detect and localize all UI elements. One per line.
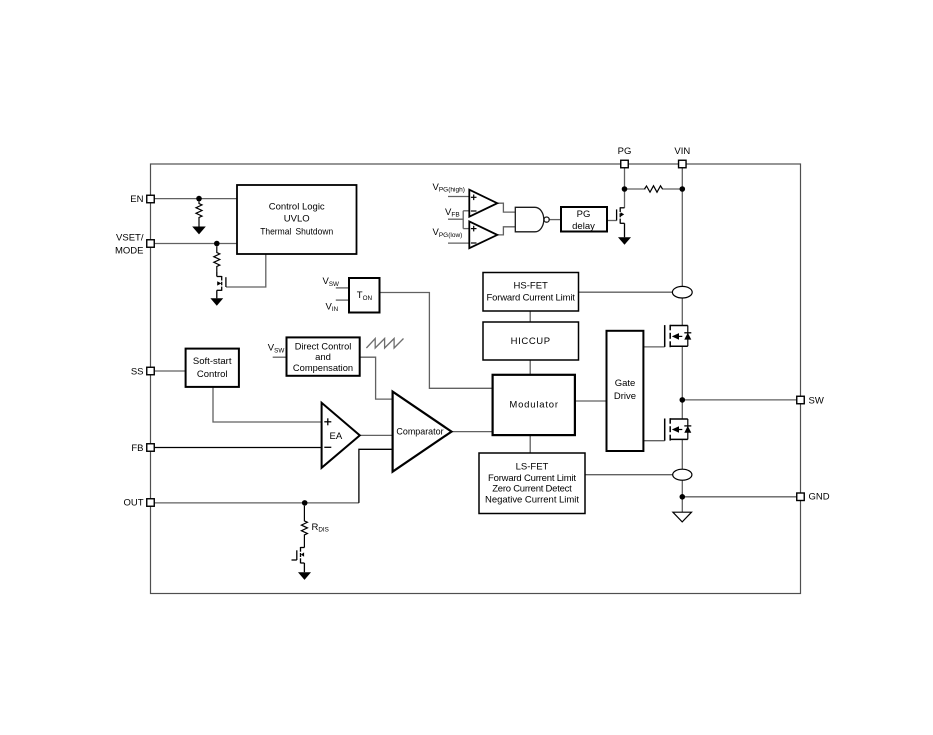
svg-text:OUT: OUT: [123, 498, 143, 509]
svg-text:EA: EA: [330, 431, 343, 442]
wire PG pin down to fet: [624, 168, 626, 208]
block Gate Drive: [607, 331, 644, 451]
svg-text:VPG(high): VPG(high): [433, 182, 465, 194]
gate NAND: [515, 207, 549, 232]
svg-text:Zero Current Detect: Zero Current Detect: [492, 484, 572, 495]
svg-text:VSET/: VSET/: [116, 233, 144, 244]
wire modulator to gate drive: [575, 400, 607, 402]
svg-text:VPG(low): VPG(low): [433, 227, 463, 239]
svg-text:Compensation: Compensation: [293, 363, 353, 374]
current sense ellipse lower: [673, 469, 692, 480]
pin VIN: [679, 160, 687, 168]
pin PG: [621, 160, 629, 168]
wire SW out: [682, 399, 796, 401]
svg-text:LS-FET: LS-FET: [516, 462, 549, 473]
svg-text:FB: FB: [131, 443, 143, 454]
resistor Rdis: [301, 506, 307, 547]
wire gate drive to upper fet: [643, 346, 664, 348]
block HICCUP: [483, 322, 579, 360]
wire Ton output to modulator: [380, 293, 493, 389]
svg-text:VIN: VIN: [326, 301, 339, 313]
svg-text:HS-FET: HS-FET: [514, 281, 549, 292]
comparator main: [393, 392, 452, 472]
pin SW: [797, 396, 805, 404]
wire ellipse to gnd: [681, 480, 683, 512]
ground symbol (open triangle): [673, 512, 692, 522]
wire between fets (SW node): [681, 346, 683, 419]
pin VSET/MODE: [147, 240, 155, 248]
wire lower fet source to ellipse: [681, 439, 683, 469]
svg-text:VIN: VIN: [674, 146, 690, 157]
wire EA output: [360, 434, 393, 436]
pin EN: [147, 195, 155, 203]
pin OUT: [147, 499, 155, 507]
resistor R-EN: [196, 201, 202, 226]
svg-text:GND: GND: [809, 492, 830, 503]
wire EN net: [154, 198, 237, 200]
node EN-resistor junction: [196, 196, 202, 202]
wire FB net (black): [154, 447, 321, 449]
node PG junction: [622, 186, 628, 192]
svg-text:Direct Control: Direct Control: [295, 341, 352, 352]
wire VIN rail down: [681, 168, 683, 287]
wire nand to PG delay: [549, 219, 561, 221]
wire comparator output to modulator: [452, 431, 493, 433]
wire Vsw to Direct Control: [273, 356, 287, 358]
svg-text:Forward Current Limit: Forward Current Limit: [488, 473, 576, 484]
wire gate drive to lower fet: [643, 440, 664, 442]
wire control logic to vset fet gate: [226, 254, 266, 287]
wire Vpg(high) input: [448, 196, 469, 198]
svg-text:SS: SS: [131, 366, 144, 377]
transistor LS power FET: [665, 418, 688, 441]
ground arrow PG fet: [618, 237, 631, 245]
transistor Rdis FET (gate left): [292, 547, 305, 573]
wire LS-FET to sense: [585, 474, 673, 476]
svg-text:VSW: VSW: [268, 343, 285, 355]
svg-text:EN: EN: [130, 194, 143, 205]
op-amp EA: [322, 403, 360, 468]
wire hiccup connectors: [529, 311, 531, 322]
comparator PG high: [469, 190, 497, 217]
block PG delay: [561, 207, 607, 232]
wire Ton input Vin: [336, 299, 349, 301]
wire soft-start to EA+: [213, 387, 322, 422]
wire HS-FET to sense: [579, 291, 673, 293]
junction dots: [196, 186, 685, 506]
pin SS: [147, 367, 155, 375]
svg-text:RDIS: RDIS: [312, 522, 329, 534]
svg-text:SW: SW: [809, 396, 824, 407]
block HS-FET Forward Current Limit: [483, 273, 579, 312]
ground arrow EN: [192, 227, 206, 235]
svg-text:Comparator: Comparator: [396, 427, 443, 438]
wire GND out: [682, 496, 796, 498]
svg-text:VFB: VFB: [445, 207, 460, 219]
svg-text:PG: PG: [577, 209, 591, 220]
wire comp low to nand: [497, 227, 515, 235]
node VSET-resistor junction: [214, 241, 220, 247]
svg-text:HICCUP: HICCUP: [511, 336, 551, 347]
wire Vfb input and bracket: [448, 218, 463, 220]
transistor HS power FET: [665, 325, 688, 347]
transistor VSET FET (gate right): [217, 272, 226, 298]
outer IC boundary: [151, 164, 801, 594]
svg-text:Soft-start: Soft-start: [193, 356, 232, 367]
wire OUT to comparator (black): [359, 449, 393, 503]
svg-text:UVLO: UVLO: [284, 213, 310, 224]
ground arrow Rdis fet: [298, 572, 311, 580]
svg-text:delay: delay: [572, 221, 595, 232]
wire SS net: [154, 370, 185, 372]
wire comp high to nand: [497, 203, 515, 212]
svg-text:and: and: [315, 352, 331, 363]
node SW junction: [680, 397, 686, 403]
wires gray group: [154, 168, 797, 513]
wire VSET net: [154, 243, 237, 245]
block Soft-start Control: [186, 349, 239, 387]
svg-text:Negative Current Limit: Negative Current Limit: [485, 495, 579, 506]
block Control Logic: [237, 185, 357, 254]
wire Vpg(low) input: [448, 242, 469, 244]
svg-text:VSW: VSW: [323, 276, 340, 288]
node GND junction: [680, 494, 686, 500]
transistor PG FET: [617, 207, 625, 237]
node VIN junction: [680, 186, 686, 192]
svg-text:Thermal Shutdown: Thermal Shutdown: [260, 226, 333, 237]
svg-text:PG: PG: [618, 146, 632, 157]
block Ton: [349, 278, 380, 313]
svg-text:Gate: Gate: [615, 378, 636, 389]
wire resistor leads PG-VIN: [625, 188, 646, 190]
svg-text:Drive: Drive: [614, 391, 636, 402]
wire Ton input Vsw: [336, 287, 349, 289]
ground arrow VSET: [210, 298, 223, 305]
resistor R-VSET: [214, 246, 220, 272]
sawtooth ramp symbol: [366, 339, 403, 349]
svg-text:MODE: MODE: [115, 246, 144, 257]
current sense ellipse upper: [672, 286, 692, 298]
block Modulator: [493, 375, 575, 435]
resistor PG-VIN: [645, 186, 663, 192]
svg-text:Modulator: Modulator: [509, 399, 558, 410]
svg-text:Control: Control: [197, 369, 228, 380]
wire ramp to comparator: [360, 357, 393, 399]
svg-text:Forward Current Limit: Forward Current Limit: [486, 293, 575, 304]
wire OUT net: [154, 502, 359, 504]
pin GND: [797, 493, 805, 501]
node OUT-Rdis junction: [302, 500, 308, 506]
block LS-FET limits: [479, 453, 585, 514]
wire PG delay to pg fet gate: [607, 220, 617, 222]
block Direct Control and Compensation: [287, 337, 360, 375]
comparator PG low: [469, 221, 497, 248]
pin FB: [147, 444, 155, 452]
svg-text:Control Logic: Control Logic: [269, 202, 325, 213]
